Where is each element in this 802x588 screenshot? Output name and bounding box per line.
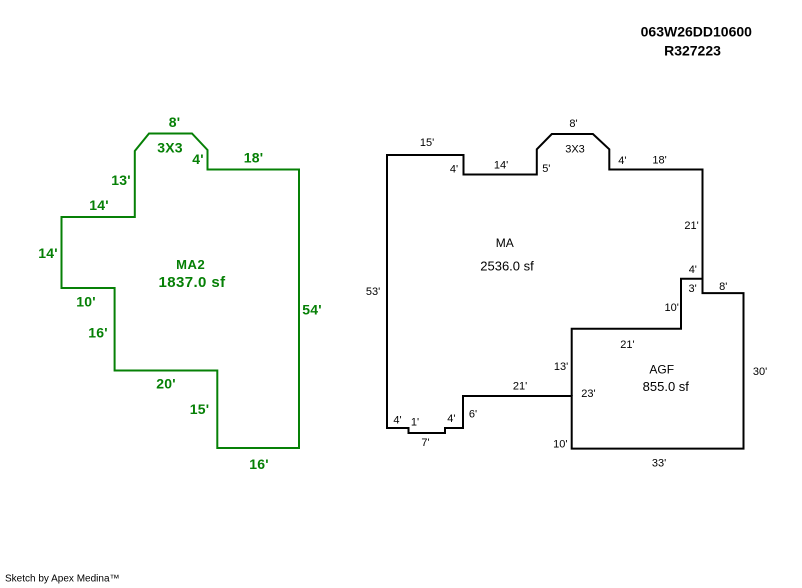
svg-text:4': 4' [450,164,458,176]
svg-text:10': 10' [665,302,679,314]
svg-text:MA: MA [496,236,514,250]
MA2 building outline (green polygon, left) [62,134,300,449]
svg-text:AGF: AGF [649,363,674,377]
svg-text:21': 21' [620,339,634,351]
svg-text:15': 15' [190,401,210,417]
svg-text:4': 4' [689,264,697,276]
svg-text:2536.0 sf: 2536.0 sf [480,259,534,274]
svg-text:3X3: 3X3 [565,144,585,156]
svg-text:8': 8' [569,118,577,130]
svg-text:4': 4' [192,151,204,167]
svg-text:10': 10' [553,439,567,451]
svg-text:855.0 sf: 855.0 sf [643,379,690,394]
svg-text:23': 23' [581,388,595,400]
svg-text:1837.0 sf: 1837.0 sf [159,274,227,291]
svg-text:54': 54' [302,302,322,318]
svg-text:1': 1' [411,417,419,429]
svg-text:13': 13' [111,172,131,188]
svg-text:3X3: 3X3 [157,140,183,156]
svg-text:R327223: R327223 [664,43,721,59]
svg-text:14': 14' [494,160,508,172]
svg-text:13': 13' [554,361,568,373]
svg-text:4': 4' [618,155,626,167]
svg-text:6': 6' [469,409,477,421]
svg-text:7': 7' [421,437,429,449]
svg-text:16': 16' [249,456,269,472]
svg-text:16': 16' [88,325,108,341]
svg-text:53': 53' [366,286,380,298]
svg-text:MA2: MA2 [176,257,205,272]
svg-text:15': 15' [420,137,434,149]
svg-text:Sketch by Apex Medina™: Sketch by Apex Medina™ [5,574,120,585]
svg-text:30': 30' [753,366,767,378]
svg-text:5': 5' [542,163,550,175]
svg-text:063W26DD10600: 063W26DD10600 [641,24,753,40]
svg-text:4': 4' [447,413,455,425]
MA/AGF building outer outline (black polygon, right) [387,134,744,449]
svg-text:18': 18' [244,150,264,166]
svg-text:14': 14' [89,197,109,213]
svg-text:33': 33' [652,458,666,470]
svg-text:21': 21' [684,220,698,232]
svg-text:14': 14' [38,245,58,261]
svg-text:4': 4' [393,415,401,427]
svg-text:21': 21' [513,381,527,393]
svg-text:8': 8' [169,114,181,130]
svg-text:20': 20' [156,376,176,392]
AGF internal boundary line [572,279,703,396]
svg-text:10': 10' [76,294,96,310]
svg-text:8': 8' [719,281,727,293]
svg-text:18': 18' [652,155,666,167]
svg-text:3': 3' [688,283,696,295]
